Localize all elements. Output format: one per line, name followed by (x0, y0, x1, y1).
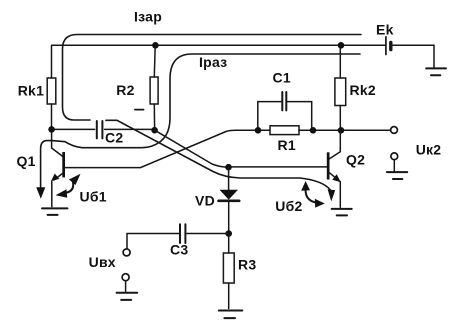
node dot C3/R3 (225, 230, 232, 237)
node dot VD top (225, 164, 232, 171)
svg-text:Uб2: Uб2 (275, 198, 302, 214)
node dot rail-R2 (152, 42, 159, 49)
node dot Q1 collector / C2 left (48, 126, 55, 133)
node dot rail-Rk2 (338, 42, 345, 49)
terminal circle Uvx input (123, 249, 130, 256)
svg-text:Q2: Q2 (346, 151, 365, 167)
diode VD (219, 167, 240, 233)
svg-text:VD: VD (195, 192, 215, 208)
ground (Uk2) (387, 160, 407, 180)
svg-text:Uк2: Uк2 (416, 141, 442, 157)
ground (right of Ek) (426, 68, 446, 75)
transistor Q1 (51, 129, 65, 206)
svg-text:C1: C1 (273, 70, 291, 86)
current loop Izar (63, 35, 362, 202)
resistor R1 (270, 126, 299, 135)
svg-text:Iраз: Iраз (199, 54, 227, 70)
wire battery to ground (392, 45, 435, 67)
terminal circle output Uk2 (391, 127, 398, 134)
minus mark near C2 right plate (135, 109, 144, 111)
measurement arrow Ub1 (56, 174, 81, 198)
resistor R2 (150, 45, 158, 128)
terminal circle Uvx ground side (122, 274, 129, 281)
capacitor C3 (127, 224, 229, 248)
svg-text:C3: C3 (170, 241, 188, 257)
node dot R2 bottom / C2 right (151, 127, 158, 134)
resistor R3 (223, 234, 234, 309)
capacitor C2 (52, 121, 153, 138)
resistor Rk2 (335, 45, 346, 127)
current loop Iraz (36, 54, 360, 199)
svg-text:C2: C2 (105, 130, 123, 146)
ground (R3) (219, 311, 243, 319)
capacitor C1 with box (258, 92, 312, 130)
node dot Q2 collector (338, 127, 345, 134)
svg-text:Rk2: Rk2 (350, 82, 376, 98)
wire main supply rail (52, 44, 386, 46)
wire R1 right to output (299, 129, 391, 131)
terminal circle Uk2 ground side (391, 153, 398, 160)
resistor Rk1 (47, 45, 56, 127)
measurement arrow Ub2 (301, 181, 325, 208)
ground (Uvx) (117, 281, 138, 300)
svg-text:R2: R2 (116, 82, 134, 98)
wire R2 bottom to VD node (diagonal down) (155, 130, 229, 167)
node dot C1R1 right (310, 127, 317, 134)
svg-text:R3: R3 (238, 256, 256, 272)
transistor Q2 (327, 130, 341, 207)
node dot C1R1 left (255, 127, 262, 134)
ground (Q1 emitter) (42, 208, 68, 215)
svg-text:Rk1: Rk1 (18, 83, 44, 99)
svg-text:R1: R1 (278, 137, 296, 153)
svg-text:Q1: Q1 (17, 153, 36, 169)
svg-text:Iзар: Iзар (134, 8, 162, 24)
battery Ek (386, 37, 391, 55)
wire Q1 base to R1 left (diagonal up) (65, 130, 270, 167)
svg-text:Uвх: Uвх (89, 254, 116, 270)
svg-text:Ek: Ek (376, 22, 394, 38)
wire VD node to Q2 base (229, 166, 328, 168)
ground (Q2 emitter) (332, 209, 352, 216)
svg-text:Uб1: Uб1 (80, 188, 107, 204)
